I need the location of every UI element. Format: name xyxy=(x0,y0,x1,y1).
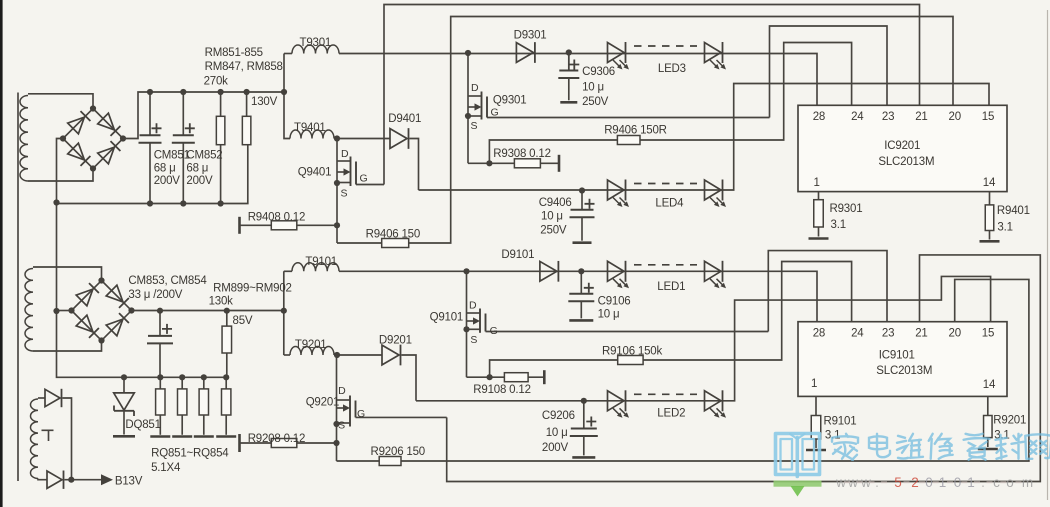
svg-text:.: . xyxy=(875,475,879,490)
svg-text:R9106 150k: R9106 150k xyxy=(602,346,662,358)
svg-text:D: D xyxy=(341,148,349,160)
svg-text:m: m xyxy=(1022,475,1033,490)
svg-text:28: 28 xyxy=(813,111,825,123)
svg-text:14: 14 xyxy=(983,379,996,391)
svg-text:D9201: D9201 xyxy=(379,335,412,347)
svg-text:R9108 0.12: R9108 0.12 xyxy=(473,384,530,396)
svg-text:Q9101: Q9101 xyxy=(430,312,464,324)
svg-text:IC9101: IC9101 xyxy=(879,350,915,362)
svg-text:Q9201: Q9201 xyxy=(306,397,340,409)
svg-text:R9406 150R: R9406 150R xyxy=(604,125,667,137)
svg-text:RM899~RM902: RM899~RM902 xyxy=(213,282,292,294)
svg-text:23: 23 xyxy=(882,328,894,340)
svg-text:G: G xyxy=(360,173,368,185)
svg-text:IC9201: IC9201 xyxy=(884,140,920,152)
svg-text:T9301: T9301 xyxy=(300,37,332,49)
svg-text:10 μ: 10 μ xyxy=(546,427,568,439)
svg-text:15: 15 xyxy=(982,328,994,340)
svg-text:23: 23 xyxy=(882,111,894,123)
svg-text:14: 14 xyxy=(983,177,996,189)
svg-text:68 μ: 68 μ xyxy=(186,163,208,175)
svg-text:68 μ: 68 μ xyxy=(154,163,176,175)
svg-text:200V: 200V xyxy=(154,175,181,187)
svg-text:D9301: D9301 xyxy=(514,30,547,42)
svg-text:T9101: T9101 xyxy=(305,256,337,268)
svg-text:R9401: R9401 xyxy=(997,205,1030,217)
svg-text:R9208 0.12: R9208 0.12 xyxy=(248,433,305,445)
svg-text:5.1X4: 5.1X4 xyxy=(151,462,181,474)
svg-text:S: S xyxy=(338,420,345,432)
svg-text:D: D xyxy=(338,385,346,397)
svg-text:c: c xyxy=(993,475,1000,490)
svg-text:21: 21 xyxy=(915,328,927,340)
svg-text:.: . xyxy=(981,475,985,490)
svg-text:S: S xyxy=(470,334,477,346)
svg-text:R9201: R9201 xyxy=(993,415,1026,427)
svg-text:SLC2013M: SLC2013M xyxy=(876,365,932,377)
svg-text:1: 1 xyxy=(939,475,947,490)
svg-text:LED2: LED2 xyxy=(657,408,685,420)
svg-text:G: G xyxy=(490,325,498,337)
svg-text:33 μ /200V: 33 μ /200V xyxy=(128,289,182,301)
svg-text:R9408 0.12: R9408 0.12 xyxy=(248,212,305,224)
svg-text:Q9301: Q9301 xyxy=(493,94,527,106)
svg-text:RM847, RM858: RM847, RM858 xyxy=(205,61,283,73)
svg-text:RM851-855: RM851-855 xyxy=(205,47,263,59)
svg-text:5: 5 xyxy=(894,475,902,490)
svg-text:T9201: T9201 xyxy=(295,339,327,351)
svg-text:20: 20 xyxy=(949,111,961,123)
svg-text:0: 0 xyxy=(954,475,962,490)
svg-text:D: D xyxy=(469,300,477,312)
svg-text:R9301: R9301 xyxy=(830,203,863,215)
svg-text:20: 20 xyxy=(949,328,961,340)
svg-text:C9306: C9306 xyxy=(582,66,615,78)
svg-text:1: 1 xyxy=(967,475,975,490)
svg-text:R9206 150: R9206 150 xyxy=(371,446,425,458)
svg-text:0: 0 xyxy=(925,475,933,490)
svg-text:3.1: 3.1 xyxy=(831,219,846,231)
svg-text:LED3: LED3 xyxy=(658,63,686,75)
svg-text:R9308 0.12: R9308 0.12 xyxy=(493,148,550,160)
svg-text:85V: 85V xyxy=(233,315,253,327)
svg-text:3.1: 3.1 xyxy=(997,222,1012,234)
svg-text:o: o xyxy=(1006,475,1014,490)
svg-text:250V: 250V xyxy=(582,96,609,108)
svg-text:D9101: D9101 xyxy=(501,249,534,261)
svg-text:RQ851~RQ854: RQ851~RQ854 xyxy=(151,447,229,459)
svg-text:270k: 270k xyxy=(204,76,229,88)
svg-text:1: 1 xyxy=(811,378,817,390)
svg-text:C9206: C9206 xyxy=(542,410,575,422)
svg-text:130k: 130k xyxy=(209,296,234,308)
svg-text:21: 21 xyxy=(915,111,927,123)
svg-text:B13V: B13V xyxy=(115,475,143,487)
svg-text:10 μ: 10 μ xyxy=(582,82,604,94)
svg-text:SLC2013M: SLC2013M xyxy=(878,156,934,168)
svg-text:24: 24 xyxy=(851,111,864,123)
svg-text:10 μ: 10 μ xyxy=(598,309,620,321)
svg-text:200V: 200V xyxy=(542,442,569,454)
svg-text:R9406 150: R9406 150 xyxy=(366,229,420,241)
svg-text:200V: 200V xyxy=(186,175,213,187)
svg-text:CM851: CM851 xyxy=(154,150,190,162)
svg-text:1: 1 xyxy=(814,177,820,189)
svg-text:10 μ: 10 μ xyxy=(541,210,563,222)
svg-text:CM853, CM854: CM853, CM854 xyxy=(128,275,207,287)
svg-text:LED4: LED4 xyxy=(655,197,684,209)
svg-text:15: 15 xyxy=(982,111,994,123)
svg-text:R9101: R9101 xyxy=(824,416,857,428)
svg-text:C9106: C9106 xyxy=(598,295,631,307)
svg-text:G: G xyxy=(357,408,365,420)
svg-text:T9401: T9401 xyxy=(294,122,326,134)
svg-text:DQ851: DQ851 xyxy=(125,419,160,431)
svg-text:250V: 250V xyxy=(540,225,567,237)
svg-text:LED1: LED1 xyxy=(657,281,685,293)
svg-text:G: G xyxy=(491,107,499,119)
svg-text:28: 28 xyxy=(813,328,825,340)
svg-text:2: 2 xyxy=(911,475,919,490)
svg-text:C9406: C9406 xyxy=(539,197,572,209)
svg-text:130V: 130V xyxy=(251,96,278,108)
svg-text:D: D xyxy=(471,82,479,94)
svg-text:S: S xyxy=(341,188,348,200)
svg-text:D9401: D9401 xyxy=(388,113,421,125)
svg-text:CM852: CM852 xyxy=(186,150,222,162)
svg-text:Q9401: Q9401 xyxy=(298,167,332,179)
svg-text:24: 24 xyxy=(851,328,864,340)
svg-text:S: S xyxy=(471,120,478,132)
